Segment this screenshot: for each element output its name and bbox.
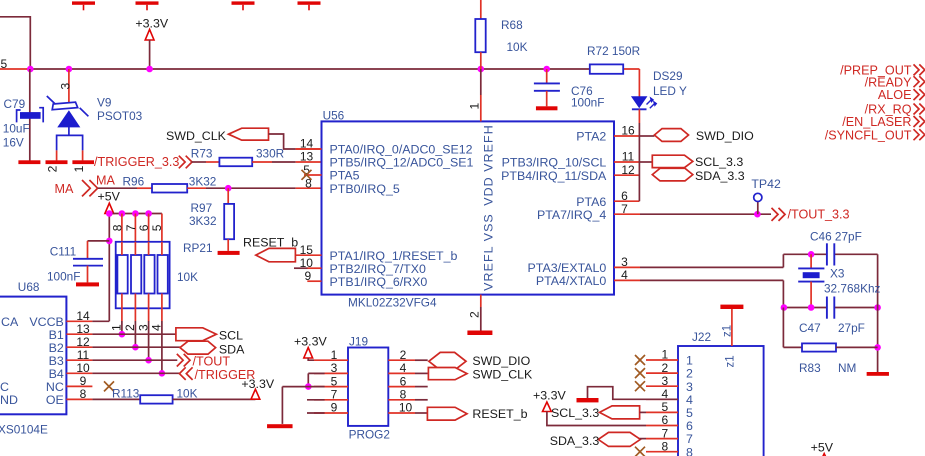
svg-text:5: 5 xyxy=(150,224,164,231)
svg-text:SWD_DIO: SWD_DIO xyxy=(696,129,754,143)
svg-text:PTA3/EXTAL0: PTA3/EXTAL0 xyxy=(528,261,607,275)
svg-text:16: 16 xyxy=(621,124,635,138)
svg-text:B1: B1 xyxy=(49,328,64,342)
svg-text:VREFL VSS: VREFL VSS xyxy=(481,213,495,291)
svg-text:B3: B3 xyxy=(49,354,64,368)
svg-text:/TRIGGER_3.3: /TRIGGER_3.3 xyxy=(94,155,179,169)
svg-text:6: 6 xyxy=(661,413,668,427)
svg-text:330R: 330R xyxy=(256,147,284,161)
svg-text:5: 5 xyxy=(331,374,338,388)
svg-text:3: 3 xyxy=(58,83,72,90)
svg-text:DS29: DS29 xyxy=(653,69,683,83)
svg-text:RP21: RP21 xyxy=(183,241,213,255)
svg-text:MKL02Z32VFG4: MKL02Z32VFG4 xyxy=(348,295,437,309)
svg-text:SCL: SCL xyxy=(219,329,243,343)
svg-text:PTA0/IRQ_0/ADC0_SE12: PTA0/IRQ_0/ADC0_SE12 xyxy=(330,143,473,157)
svg-text:1: 1 xyxy=(686,354,693,368)
svg-text:14: 14 xyxy=(300,137,314,151)
svg-text:8: 8 xyxy=(686,445,693,456)
svg-text:ALOE: ALOE xyxy=(878,88,912,102)
svg-text:VCCB: VCCB xyxy=(29,315,63,329)
svg-text:2: 2 xyxy=(661,361,668,375)
svg-text:PTA6: PTA6 xyxy=(576,195,606,209)
svg-text:2: 2 xyxy=(45,165,59,172)
svg-text:7: 7 xyxy=(124,224,138,231)
svg-text:NC: NC xyxy=(46,380,64,394)
svg-text:XS0104E: XS0104E xyxy=(0,423,48,437)
svg-text:PTA1/IRQ_1/RESET_b: PTA1/IRQ_1/RESET_b xyxy=(330,249,458,263)
svg-text:14: 14 xyxy=(76,309,90,323)
svg-text:C47: C47 xyxy=(799,321,821,335)
svg-text:CA: CA xyxy=(1,315,19,329)
svg-text:C: C xyxy=(0,380,9,394)
svg-text:3K32: 3K32 xyxy=(189,175,217,189)
svg-text:2: 2 xyxy=(400,348,407,362)
svg-text:13: 13 xyxy=(300,150,314,164)
svg-text:RESET_b: RESET_b xyxy=(472,407,527,421)
svg-text:10K: 10K xyxy=(177,270,198,284)
svg-text:10uF: 10uF xyxy=(3,122,30,136)
svg-text:7: 7 xyxy=(686,432,693,446)
svg-text:PTA7/IRQ_4: PTA7/IRQ_4 xyxy=(537,208,606,222)
svg-text:R96: R96 xyxy=(123,175,145,189)
svg-text:5: 5 xyxy=(1,57,8,71)
svg-text:6: 6 xyxy=(137,224,151,231)
svg-text:PROG2: PROG2 xyxy=(349,428,390,442)
svg-text:10K: 10K xyxy=(177,387,198,401)
svg-text:SWD_DIO: SWD_DIO xyxy=(472,354,530,368)
svg-text:1: 1 xyxy=(331,348,338,362)
svg-text:2: 2 xyxy=(468,311,482,318)
svg-text:PSOT03: PSOT03 xyxy=(97,109,143,123)
svg-text:/READY: /READY xyxy=(865,75,912,89)
svg-text:9: 9 xyxy=(331,401,338,415)
svg-text:16V: 16V xyxy=(3,136,24,150)
svg-text:TP42: TP42 xyxy=(751,177,781,191)
svg-text:11: 11 xyxy=(77,348,90,362)
svg-text:U56: U56 xyxy=(323,108,345,122)
svg-text:3: 3 xyxy=(661,374,668,388)
svg-text:6: 6 xyxy=(621,189,628,203)
svg-text:R72 150R: R72 150R xyxy=(587,44,640,58)
svg-text:4: 4 xyxy=(686,393,693,407)
svg-text:LED Y: LED Y xyxy=(653,84,687,98)
svg-text:4: 4 xyxy=(400,361,407,375)
svg-text:4: 4 xyxy=(150,324,164,331)
svg-text:6: 6 xyxy=(686,419,693,433)
svg-text:1: 1 xyxy=(72,165,86,172)
svg-text:3: 3 xyxy=(331,361,338,375)
svg-text:13: 13 xyxy=(76,322,90,336)
svg-text:SCL_3.3: SCL_3.3 xyxy=(695,155,743,169)
svg-text:MA: MA xyxy=(96,173,115,187)
svg-text:SWD_CLK: SWD_CLK xyxy=(166,129,227,143)
svg-text:NM: NM xyxy=(838,361,856,375)
svg-text:U68: U68 xyxy=(18,280,40,294)
svg-text:12: 12 xyxy=(76,335,90,349)
svg-text:+3.3V: +3.3V xyxy=(533,389,566,403)
svg-text:/TRIGGER: /TRIGGER xyxy=(195,368,256,382)
svg-text:RESET_b: RESET_b xyxy=(243,235,298,249)
svg-text:PTB1/IRQ_6/RX0: PTB1/IRQ_6/RX0 xyxy=(330,275,428,289)
svg-text:2: 2 xyxy=(686,367,693,381)
svg-text:3K32: 3K32 xyxy=(189,214,217,228)
svg-text:R83: R83 xyxy=(799,361,821,375)
svg-text:PTA5: PTA5 xyxy=(330,169,360,183)
svg-text:VDD VREFH: VDD VREFH xyxy=(481,124,495,206)
svg-text:1: 1 xyxy=(110,324,124,331)
svg-text:3: 3 xyxy=(136,324,150,331)
svg-text:8: 8 xyxy=(661,439,668,453)
svg-text:/TOUT_3.3: /TOUT_3.3 xyxy=(788,207,850,221)
svg-text:+5V: +5V xyxy=(811,441,834,455)
svg-text:MA: MA xyxy=(55,182,74,196)
svg-text:OE: OE xyxy=(46,393,64,407)
svg-text:X3: X3 xyxy=(830,267,845,281)
svg-text:/SYNCFL_OUT: /SYNCFL_OUT xyxy=(825,128,912,142)
svg-text:11: 11 xyxy=(622,150,635,164)
svg-text:R68: R68 xyxy=(501,18,523,32)
svg-text:9: 9 xyxy=(80,374,87,388)
svg-text:R73: R73 xyxy=(191,147,213,161)
svg-text:2: 2 xyxy=(123,324,137,331)
svg-text:SWD_CLK: SWD_CLK xyxy=(472,367,533,381)
svg-text:ND: ND xyxy=(0,393,18,407)
svg-text:PTB2/IRQ_7/TX0: PTB2/IRQ_7/TX0 xyxy=(330,262,427,276)
svg-text:5: 5 xyxy=(661,400,668,414)
svg-text:B2: B2 xyxy=(49,341,64,355)
svg-text:5: 5 xyxy=(686,406,693,420)
svg-text:PTB0/IRQ_5: PTB0/IRQ_5 xyxy=(330,182,400,196)
svg-text:R97: R97 xyxy=(191,201,213,215)
svg-text:B4: B4 xyxy=(49,367,64,381)
svg-text:PTA2: PTA2 xyxy=(576,130,606,144)
svg-text:z1: z1 xyxy=(725,355,737,367)
svg-text:7: 7 xyxy=(661,426,668,440)
svg-text:C111: C111 xyxy=(50,244,76,258)
svg-text:7: 7 xyxy=(331,388,338,402)
svg-text:10: 10 xyxy=(399,401,413,415)
svg-text:SDA_3.3: SDA_3.3 xyxy=(695,169,745,183)
svg-text:100nF: 100nF xyxy=(47,270,80,284)
svg-text:PTA4/XTAL0: PTA4/XTAL0 xyxy=(536,274,607,288)
svg-text:7: 7 xyxy=(621,202,628,216)
svg-text:1: 1 xyxy=(468,103,482,110)
svg-text:R113: R113 xyxy=(112,387,140,401)
svg-text:8: 8 xyxy=(400,388,407,402)
svg-text:+5V: +5V xyxy=(98,190,121,204)
svg-text:/TOUT: /TOUT xyxy=(193,354,231,368)
svg-text:SCL_3.3: SCL_3.3 xyxy=(551,406,599,420)
svg-text:PTB5/IRQ_12/ADC0_SE1: PTB5/IRQ_12/ADC0_SE1 xyxy=(330,156,474,170)
svg-text:8: 8 xyxy=(80,387,87,401)
svg-text:8: 8 xyxy=(110,224,124,231)
svg-text:27pF: 27pF xyxy=(838,321,865,335)
svg-text:100nF: 100nF xyxy=(571,96,604,110)
svg-text:+3.3V: +3.3V xyxy=(294,334,327,348)
svg-text:10: 10 xyxy=(76,361,90,375)
svg-text:PTB4/IRQ_11/SDA: PTB4/IRQ_11/SDA xyxy=(501,169,607,183)
svg-text:z1: z1 xyxy=(722,325,734,337)
svg-text:3: 3 xyxy=(621,255,628,269)
svg-text:12: 12 xyxy=(621,163,635,177)
svg-text:32.768Khz: 32.768Khz xyxy=(824,281,881,295)
svg-text:V9: V9 xyxy=(97,96,111,110)
svg-text:PTB3/IRQ_10/SCL: PTB3/IRQ_10/SCL xyxy=(502,156,607,170)
svg-text:J22: J22 xyxy=(692,330,711,344)
svg-text:SDA_3.3: SDA_3.3 xyxy=(550,434,600,448)
svg-text:3: 3 xyxy=(686,380,693,394)
svg-text:4: 4 xyxy=(621,268,628,282)
svg-text:1: 1 xyxy=(661,348,668,362)
svg-text:6: 6 xyxy=(400,374,407,388)
svg-text:J19: J19 xyxy=(349,334,368,348)
svg-text:+3.3V: +3.3V xyxy=(135,17,168,31)
svg-text:C79: C79 xyxy=(4,97,26,111)
svg-text:10K: 10K xyxy=(507,40,528,54)
svg-text:/EN_LASER: /EN_LASER xyxy=(842,115,911,129)
svg-text:C46 27pF: C46 27pF xyxy=(810,229,862,243)
